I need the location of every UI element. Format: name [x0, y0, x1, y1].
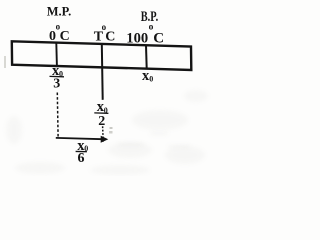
svg-text:3: 3 [53, 76, 60, 91]
dotted vertical from x0/3 down to arrow [56, 93, 59, 137]
horizontal arrow (x0/6 span) [56, 138, 103, 139]
label x0 under 100°C mark [142, 68, 153, 84]
division line at T°C (extends below bar) [101, 44, 104, 100]
label T°C [94, 22, 116, 44]
label 100°C [126, 23, 164, 47]
svg-text:C: C [153, 30, 164, 46]
fraction x0/3 [50, 63, 65, 91]
label 0°C [49, 21, 70, 43]
scale bar (outer rectangle, slightly skewed as in scan) [12, 41, 192, 70]
svg-text:C: C [105, 30, 115, 45]
fraction x0/6 [76, 138, 89, 166]
svg-text:2: 2 [98, 114, 105, 129]
svg-text:0: 0 [149, 74, 153, 83]
dotted vertical from x0/2 down through arrow [102, 126, 105, 143]
svg-text:M.P.: M.P. [47, 5, 72, 19]
division line at 100°C [145, 45, 148, 69]
faint scan noise marks [110, 127, 113, 129]
svg-text:6: 6 [78, 151, 85, 166]
faint scan mottling [6, 90, 208, 175]
arrowhead [101, 136, 109, 143]
fraction x0/2 [94, 99, 108, 129]
division line at 0°C [55, 43, 58, 66]
svg-text:C: C [60, 29, 70, 44]
